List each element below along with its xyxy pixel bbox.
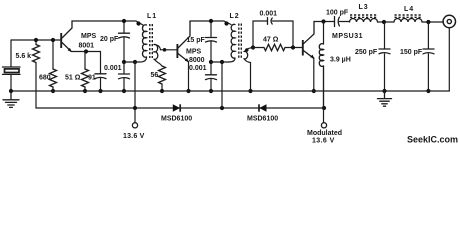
resistor R5 47ohm	[253, 44, 302, 50]
node C5 gnd dot	[209, 89, 213, 93]
wire collector rail3 y21.5	[314, 21, 334, 23]
svg-text:MPS: MPS	[186, 49, 202, 56]
node B+2 dot riser	[220, 60, 224, 64]
wire collector rail1 y21	[72, 21, 143, 25]
transistor Q2 MPS8000	[177, 21, 190, 91]
node C9 gnd dot	[426, 89, 430, 93]
node bus2 dot mid	[220, 106, 224, 110]
svg-text:250 pF: 250 pF	[355, 49, 378, 56]
wire 13.6V feed riser	[134, 62, 136, 108]
terminal 13.6V	[132, 108, 137, 128]
svg-text:MSD6100: MSD6100	[161, 116, 192, 123]
capacitor C4 15pF	[206, 21, 217, 62]
transistor Q3 MPSU31	[303, 22, 315, 92]
wire Q2 base	[161, 49, 178, 51]
node rail1 dot C2	[122, 19, 126, 23]
capacitor C7 100pF	[335, 17, 350, 27]
crystal Y1	[3, 67, 21, 91]
node B+1 dot L1	[133, 60, 137, 64]
diode D2 MSD6100	[259, 104, 267, 111]
wire base rail stage1 y40	[11, 39, 61, 41]
svg-text:20 pF: 20 pF	[100, 36, 119, 43]
resistor R3 51ohm	[82, 52, 89, 92]
capacitor C2 20pF	[119, 21, 130, 62]
capacitor C9 150pF	[423, 22, 434, 91]
svg-text:0.001: 0.001	[260, 11, 278, 18]
node R2 gnd dot	[51, 89, 55, 93]
node R3 gnd dot	[83, 89, 87, 93]
node 47ohm right dot	[291, 45, 295, 49]
node crystal-gnd dot	[9, 89, 13, 93]
capacitor C6 0.001 bridge	[253, 18, 293, 48]
svg-text:L2: L2	[230, 13, 240, 20]
wire B+2 feed riser	[221, 62, 223, 108]
node C8 gnd dot	[382, 89, 386, 93]
connector J1 output	[443, 15, 455, 91]
wire crystal riser	[10, 40, 12, 67]
transistor Q1 MPS8001	[61, 21, 100, 52]
resistor R4 56	[159, 66, 166, 91]
svg-text:100 pF: 100 pF	[326, 10, 349, 17]
node bus2 dot modulated	[322, 106, 326, 110]
inductor L4	[394, 15, 443, 22]
svg-text:8001: 8001	[79, 43, 95, 50]
svg-text:15 pF: 15 pF	[187, 37, 206, 44]
svg-text:0.001: 0.001	[104, 65, 122, 72]
node L2 sec gnd dot	[248, 89, 252, 93]
node dot L4 out	[426, 20, 430, 24]
node base rail dot R2	[51, 38, 55, 42]
node emitter dot Q1	[84, 49, 88, 53]
svg-text:MSD6100: MSD6100	[247, 116, 278, 123]
svg-text:680: 680	[39, 75, 51, 82]
svg-text:L4: L4	[404, 6, 414, 13]
wire ground bus1	[11, 90, 449, 92]
svg-text:0.001: 0.001	[189, 65, 207, 72]
inductor L3	[350, 15, 384, 22]
transformer T1 L1	[135, 21, 162, 66]
svg-text:56: 56	[151, 72, 159, 79]
svg-text:MPS: MPS	[81, 33, 97, 40]
capacitor C1 91	[95, 52, 106, 92]
node B+1 dot C2	[122, 60, 126, 64]
diode D1 MSD6100	[173, 104, 180, 111]
capacitor C3 0.001	[119, 62, 130, 91]
svg-text:8000: 8000	[189, 57, 205, 64]
svg-text:SeekIC.com: SeekIC.com	[407, 135, 458, 145]
ground G1	[3, 91, 19, 107]
inductor L5 3.9uH	[319, 22, 323, 109]
svg-text:47 Ω: 47 Ω	[263, 37, 279, 44]
node phasing dot L2 sec	[245, 48, 248, 51]
node B+2 dot C4	[209, 60, 213, 64]
resistor R1 5.6k	[33, 40, 40, 108]
svg-text:L1: L1	[147, 13, 157, 20]
node dot L3-L4	[382, 20, 386, 24]
node bus2 dot 13.6V	[133, 106, 137, 110]
svg-text:51 Ω: 51 Ω	[65, 75, 81, 82]
svg-text:13.6 V: 13.6 V	[312, 138, 335, 145]
svg-text:L3: L3	[359, 4, 369, 11]
svg-text:91: 91	[88, 75, 96, 82]
svg-text:MPSU31: MPSU31	[332, 33, 363, 40]
terminal modulated 13.6V	[321, 66, 326, 128]
node Q2 emitter gnd dot	[186, 89, 190, 93]
node R4 gnd dot	[160, 89, 164, 93]
svg-text:5.6 k: 5.6 k	[16, 53, 32, 60]
node rail3 dot L5	[321, 19, 325, 23]
wire B+1 node	[124, 61, 135, 63]
node 47ohm left dot	[251, 45, 255, 49]
node base rail dot R1	[34, 38, 38, 42]
wire B+2 node	[211, 61, 229, 63]
svg-text:150 pF: 150 pF	[400, 49, 423, 56]
wire collector rail2 y21	[190, 21, 231, 25]
ground G2	[378, 91, 392, 106]
node C1 gnd dot	[98, 89, 102, 93]
transformer T2 L2	[224, 21, 253, 91]
resistor R2 680	[50, 40, 57, 91]
node C3 gnd dot	[122, 89, 126, 93]
svg-text:3.9 µH: 3.9 µH	[330, 57, 351, 64]
node Q3 emitter gnd dot	[312, 89, 316, 93]
svg-text:Modulated: Modulated	[307, 130, 342, 137]
node phasing dot L1 sec	[163, 48, 167, 52]
wire L3 to L4	[384, 21, 394, 23]
capacitor C8 250pF	[379, 22, 390, 91]
wire supply bus2	[36, 107, 324, 109]
svg-text:13.6 V: 13.6 V	[123, 133, 145, 140]
capacitor C5 0.001	[206, 62, 217, 91]
node rail2 dot C4	[209, 19, 213, 23]
